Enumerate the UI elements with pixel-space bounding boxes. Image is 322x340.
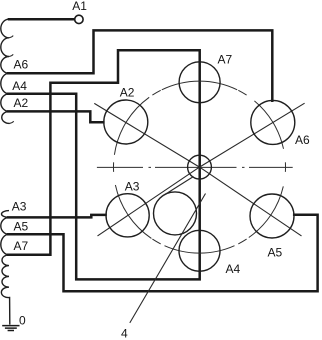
- autotransformer winding, lower section: [1, 211, 10, 325]
- lamp A7: [179, 62, 220, 103]
- tangent line node to disc: [162, 177, 194, 197]
- radial line through lamp A2: [94, 103, 199, 167]
- svg-text:A1: A1: [72, 0, 87, 13]
- lamp A4: [179, 230, 220, 271]
- horizontal centerline (dash-dot): [97, 166, 293, 168]
- center node: [188, 155, 212, 179]
- ground 0: [2, 326, 19, 331]
- wire A1: [9, 18, 74, 21]
- svg-text:A5: A5: [14, 220, 29, 234]
- svg-text:A2: A2: [14, 96, 29, 110]
- svg-text:A2: A2: [120, 86, 135, 100]
- svg-text:A7: A7: [218, 53, 233, 67]
- svg-text:A5: A5: [268, 245, 283, 259]
- lamp A2: [104, 100, 148, 144]
- radial line through lamp A6: [200, 103, 305, 167]
- svg-text:A3: A3: [125, 180, 140, 194]
- wire A3: tap to lamp A3: [8, 215, 106, 218]
- svg-text:A6: A6: [14, 58, 29, 72]
- svg-text:0: 0: [19, 314, 26, 328]
- disc 4 (circle): [154, 192, 197, 235]
- leader line 4: [130, 194, 206, 323]
- svg-text:A6: A6: [295, 133, 310, 147]
- svg-text:A3: A3: [12, 200, 27, 214]
- svg-text:A4: A4: [12, 79, 27, 93]
- svg-text:A4: A4: [226, 262, 241, 276]
- lamp ring centerline arcs (dash-dot circle r86): [254, 101, 283, 149]
- lamp A6: [251, 100, 295, 144]
- autotransformer winding, upper section: [1, 19, 12, 123]
- svg-text:A7: A7: [14, 239, 29, 253]
- wire A6: tap to lamp A6: [8, 30, 272, 100]
- lamp A3: [106, 194, 149, 237]
- radial line through lamp A3: [98, 167, 200, 236]
- wire A5: tap to lamp A5: [8, 215, 318, 292]
- wire A2: tap to lamp A2: [8, 111, 103, 122]
- radial line through lamp A5: [200, 167, 302, 236]
- lamp A5: [250, 194, 294, 238]
- svg-text:4: 4: [121, 327, 128, 340]
- winding cusp hooks: [9, 36, 14, 124]
- wire A7 / center column / wire A4: [8, 50, 200, 279]
- terminal A1: [75, 15, 83, 23]
- ring tick marks: [284, 162, 286, 172]
